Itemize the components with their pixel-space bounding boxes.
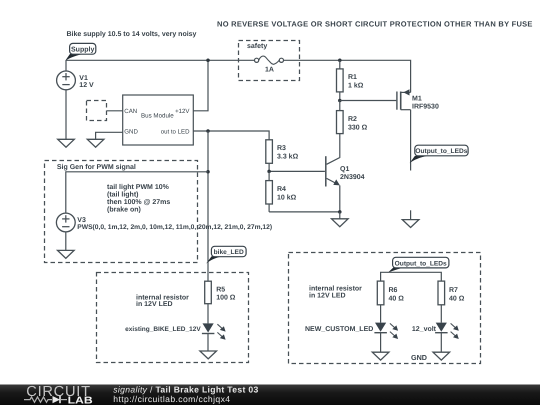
fuse F1 (safety, 1A) xyxy=(239,41,300,81)
svg-text:12_volt: 12_volt xyxy=(412,325,437,333)
IC Bus Module xyxy=(123,95,194,145)
wire NEW_CUSTOM_LED to ground xyxy=(380,333,382,353)
resistor R7 xyxy=(438,281,465,323)
svg-text:GND: GND xyxy=(411,353,427,362)
junction (base node) xyxy=(267,170,271,174)
svg-text:12 V: 12 V xyxy=(79,82,94,89)
svg-text:in 12V LED: in 12V LED xyxy=(136,300,173,308)
wire CAN stub xyxy=(107,110,123,112)
svg-text:R3: R3 xyxy=(277,145,286,152)
node flag Output_to_LEDs (bottom) xyxy=(388,257,449,273)
svg-text:R7: R7 xyxy=(449,287,458,294)
sig gen dashed box xyxy=(45,161,198,263)
node flag Supply xyxy=(65,43,96,60)
voltage source V1 xyxy=(57,60,94,90)
svg-text:R2: R2 xyxy=(348,116,357,123)
svg-text:GND: GND xyxy=(124,129,138,136)
svg-text:1A: 1A xyxy=(265,66,274,73)
wire R3 base node xyxy=(269,170,325,172)
wire LED column (down to R5) xyxy=(207,131,209,281)
svg-text:330 Ω: 330 Ω xyxy=(348,124,368,131)
resistor R2 xyxy=(337,101,368,158)
ground (V1) xyxy=(58,139,75,147)
wire out-to-LED pin to R3 xyxy=(193,131,269,140)
note internal resistor (left) xyxy=(136,294,189,309)
led 12_volt xyxy=(412,323,459,339)
bike LED dashed box xyxy=(97,273,249,363)
svg-text:Output_to_LEDs: Output_to_LEDs xyxy=(395,260,447,267)
svg-text:Bike supply 10.5 to 14 volts,: Bike supply 10.5 to 14 volts, very noisy xyxy=(67,30,197,38)
note GND xyxy=(411,353,427,362)
wire +12V pin to top rail xyxy=(193,60,208,111)
node flag bike_LED xyxy=(206,246,246,263)
led NEW_CUSTOM_LED xyxy=(305,323,398,339)
svg-text:Supply: Supply xyxy=(71,45,94,53)
wire V1 to ground xyxy=(65,90,67,140)
node flag Output_to_LEDs (at M1 drain) xyxy=(410,145,469,163)
svg-text:bike_LED: bike_LED xyxy=(214,249,244,256)
voltage source V3 xyxy=(56,172,272,232)
svg-text:R4: R4 xyxy=(277,186,286,193)
ground (NEW_CUSTOM_LED) xyxy=(372,352,389,360)
wire GND pin to ground xyxy=(96,132,123,139)
svg-text:3.3 kΩ: 3.3 kΩ xyxy=(277,153,299,161)
mosfet M1 IRF9530 xyxy=(397,89,439,110)
ground (bike LED) xyxy=(200,351,217,359)
svg-text:http://circuitlab.com/cchjqx4: http://circuitlab.com/cchjqx4 xyxy=(113,394,230,404)
svg-text:in 12V LED: in 12V LED xyxy=(309,291,346,299)
junction (supply / +12V) xyxy=(206,59,210,63)
svg-text:IRF9530: IRF9530 xyxy=(412,104,439,111)
note PWM description xyxy=(107,183,170,214)
ground (12_volt LED) xyxy=(433,352,450,360)
svg-text:40 Ω: 40 Ω xyxy=(449,295,465,302)
svg-text:then 100% @ 27ms: then 100% @ 27ms xyxy=(107,198,170,206)
footer title xyxy=(113,385,258,395)
svg-text:V1: V1 xyxy=(79,75,88,82)
ground (output, floating) xyxy=(402,210,419,227)
svg-text:Q1: Q1 xyxy=(340,166,349,173)
svg-text:Sig Gen for PWM signal: Sig Gen for PWM signal xyxy=(57,163,136,171)
svg-text:R5: R5 xyxy=(216,286,225,293)
wire M1 drain down xyxy=(410,110,412,171)
svg-text:40 Ω: 40 Ω xyxy=(389,295,405,302)
junction (out to LED node) xyxy=(206,129,210,133)
junction (emitter / R4) xyxy=(338,210,342,214)
led existing_BIKE_LED_12V xyxy=(125,323,225,339)
svg-text:R6: R6 xyxy=(389,287,398,294)
wire gate xyxy=(340,100,397,102)
svg-text:1 kΩ: 1 kΩ xyxy=(348,81,364,89)
svg-text:Output_to_LEDs: Output_to_LEDs xyxy=(415,148,467,155)
svg-text:(tail light): (tail light) xyxy=(107,190,139,198)
wire fuse to M1 source (top rail right) xyxy=(283,60,410,92)
svg-text:(brake on): (brake on) xyxy=(107,205,141,213)
ground (V3) xyxy=(58,250,75,258)
svg-text:R1: R1 xyxy=(348,74,357,81)
ground (bus module GND) xyxy=(87,139,104,147)
resistor R3 xyxy=(266,140,299,172)
junction (gate node) xyxy=(338,99,342,103)
svg-text:NEW_CUSTOM_LED: NEW_CUSTOM_LED xyxy=(305,326,373,333)
svg-text:M1: M1 xyxy=(412,96,422,103)
junction (V3 tap) xyxy=(206,170,210,174)
svg-text:PWS(0,0, 1m,12, 2m,0, 10m,12,: PWS(0,0, 1m,12, 2m,0, 10m,12, 11m,0, 20m… xyxy=(77,224,272,231)
svg-text:100 Ω: 100 Ω xyxy=(216,295,236,302)
wire bike LED to ground xyxy=(207,334,209,352)
svg-text:Bus Module: Bus Module xyxy=(141,112,174,119)
wire output bus (R6/R7 top) xyxy=(381,272,442,281)
svg-text:+12V: +12V xyxy=(175,108,190,115)
footer bar xyxy=(0,385,540,405)
wire top rail (Supply to fuse) xyxy=(66,59,255,61)
svg-text:10 kΩ: 10 kΩ xyxy=(277,193,297,201)
svg-text:safety: safety xyxy=(247,42,267,50)
connector dashed box (CAN) xyxy=(87,101,107,121)
resistor R4 xyxy=(266,171,297,212)
svg-text:existing_BIKE_LED_12V: existing_BIKE_LED_12V xyxy=(125,326,201,333)
wire R4 bottom to emitter xyxy=(269,211,340,213)
svg-text:tail light PWM 10%: tail light PWM 10% xyxy=(107,183,170,191)
svg-text:internal resistor: internal resistor xyxy=(309,285,362,293)
wire 12_volt LED to ground xyxy=(440,333,442,353)
resistor R6 xyxy=(377,281,404,323)
transistor Q1 2N3904 xyxy=(326,156,365,212)
ground (Q1 emitter) xyxy=(332,212,349,227)
junction (R1 top) xyxy=(338,59,342,63)
svg-text:NO REVERSE VOLTAGE OR SHORT CI: NO REVERSE VOLTAGE OR SHORT CIRCUIT PROT… xyxy=(217,20,533,29)
bottom-right dashed box xyxy=(289,253,481,364)
svg-text:CAN: CAN xyxy=(124,108,137,115)
svg-text:V3: V3 xyxy=(77,217,86,224)
svg-text:LAB: LAB xyxy=(68,396,93,405)
svg-text:out to LED: out to LED xyxy=(161,129,190,136)
logo CIRCUIT LAB xyxy=(24,384,93,405)
resistor R1 xyxy=(337,60,364,100)
note internal resistor (right) xyxy=(309,285,362,300)
svg-text:2N3904: 2N3904 xyxy=(340,174,365,181)
footer url xyxy=(113,394,230,404)
wire V3 to ground xyxy=(65,232,67,251)
resistor R5 xyxy=(205,281,236,323)
